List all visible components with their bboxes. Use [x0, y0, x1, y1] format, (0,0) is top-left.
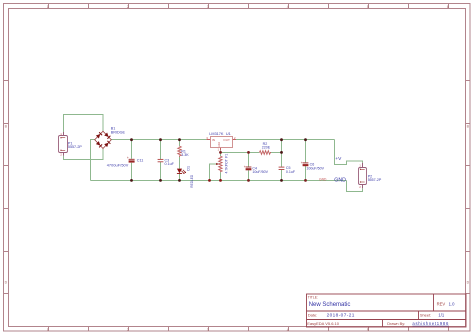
- svg-text:C11: C11: [137, 159, 144, 163]
- wire C4 top: [248, 153, 250, 167]
- node R2-C5: [280, 151, 283, 154]
- potentiometer P1 4.7K: [216, 154, 228, 174]
- diode on NW edge: [96, 132, 102, 138]
- svg-text:Sheet:: Sheet:: [420, 313, 431, 318]
- diode on NE edge: [104, 133, 110, 139]
- node gnd-LED: [178, 179, 181, 182]
- bridge rectifier B1: [95, 126, 126, 148]
- wire C3 top: [160, 140, 162, 160]
- svg-text:New Schematic: New Schematic: [309, 302, 351, 308]
- svg-text:GND: GND: [334, 178, 346, 184]
- wire C6 top: [305, 140, 307, 163]
- svg-text:P1: P1: [225, 154, 229, 158]
- wire pot bottom: [220, 172, 222, 180]
- svg-text:Drawn By:: Drawn By:: [387, 321, 405, 326]
- svg-text:0.1uF: 0.1uF: [165, 162, 175, 166]
- regulator U1 LM317: [206, 132, 236, 152]
- resistor R2: [259, 142, 271, 154]
- svg-text:0.1uF: 0.1uF: [286, 170, 296, 174]
- svg-text:2: 2: [127, 328, 129, 332]
- svg-text:2: 2: [127, 5, 129, 9]
- svg-text:100uF/50V: 100uF/50V: [306, 167, 324, 171]
- svg-text:IN: IN: [212, 138, 215, 142]
- wire bridge left to ground rail: [91, 140, 95, 181]
- svg-text:+: +: [244, 165, 246, 169]
- svg-text:4.7KPOT: 4.7KPOT: [225, 158, 229, 173]
- capacitor C4 (polarized): [244, 165, 269, 174]
- svg-text:10uF/50V: 10uF/50V: [252, 170, 268, 174]
- capacitor C3: [158, 158, 175, 166]
- wire C11 bottom: [131, 163, 133, 181]
- connector P1: [59, 132, 83, 157]
- svg-text:+: +: [301, 161, 303, 165]
- svg-text:3.3K: 3.3K: [181, 153, 189, 157]
- svg-text:+: +: [127, 156, 129, 160]
- svg-text:1: 1: [47, 5, 49, 9]
- wire C4 bottom: [248, 170, 250, 180]
- svg-text:ADJ: ADJ: [217, 141, 221, 147]
- wire pot wiper to ground: [210, 164, 217, 181]
- svg-text:1.0: 1.0: [449, 302, 455, 307]
- svg-text:LM317K: LM317K: [209, 132, 224, 136]
- svg-text:3: 3: [207, 5, 209, 9]
- wire ADJ node to R2 left: [221, 152, 260, 154]
- svg-text:3: 3: [207, 328, 209, 332]
- svg-text:EasyEDA V5.6.10: EasyEDA V5.6.10: [307, 321, 340, 326]
- svg-text:220E: 220E: [262, 146, 271, 150]
- capacitor C11 (polarized): [107, 156, 144, 168]
- wire OUT node vertical: [281, 140, 283, 167]
- wire +V stub: [335, 140, 363, 165]
- wire P1 pin1 to bridge top: [64, 115, 104, 133]
- wire input rail: [111, 139, 206, 141]
- wire C5 bottom: [281, 170, 283, 181]
- wire ground rail to P2 pin2: [347, 181, 363, 192]
- svg-text:5557-2P: 5557-2P: [68, 145, 82, 149]
- svg-text:+V: +V: [335, 156, 342, 162]
- wire output rail: [236, 139, 335, 141]
- node gnd-pot: [219, 179, 222, 182]
- junction dots: [130, 138, 307, 182]
- node rail-C11: [130, 138, 133, 141]
- wire ADJ to pot top: [220, 150, 222, 156]
- svg-text:C6: C6: [310, 162, 315, 166]
- svg-text:4700uF/50V: 4700uF/50V: [107, 163, 129, 167]
- node ADJ: [219, 151, 222, 154]
- wire R2 right to OUT node: [271, 152, 282, 154]
- wire R1 to LED: [179, 157, 181, 169]
- node outrail-C6: [304, 138, 307, 141]
- node outrail-R2C5: [280, 138, 283, 141]
- wire C3 bottom: [160, 162, 162, 181]
- capacitor C6 (polarized): [301, 161, 325, 171]
- svg-text:D1: D1: [187, 166, 191, 171]
- connector P2: [359, 163, 382, 189]
- svg-text:U1: U1: [226, 132, 231, 136]
- node gnd-wiper: [208, 179, 211, 182]
- svg-text:5557-2P: 5557-2P: [368, 178, 382, 182]
- svg-text:REDLED: REDLED: [190, 174, 194, 188]
- resistor R1: [178, 146, 189, 157]
- ground rail: [91, 180, 347, 182]
- node R2-C4: [247, 151, 250, 154]
- wire C6 bottom: [305, 166, 307, 180]
- svg-text:TITLE:: TITLE:: [308, 296, 318, 300]
- svg-text:1: 1: [47, 328, 49, 332]
- svg-text:6: 6: [447, 5, 449, 9]
- svg-text:5: 5: [367, 328, 369, 332]
- svg-text:1/1: 1/1: [438, 313, 444, 318]
- svg-text:4: 4: [287, 328, 289, 332]
- svg-text:5: 5: [367, 5, 369, 9]
- node gnd-C6: [304, 179, 307, 182]
- wire LED to ground: [179, 174, 181, 181]
- svg-text:BRIDGE: BRIDGE: [111, 130, 126, 134]
- node gnd-C5: [280, 179, 283, 182]
- svg-text:REV: REV: [437, 302, 446, 307]
- svg-text:OUT: OUT: [223, 138, 230, 142]
- svg-text:2018-07-21: 2018-07-21: [327, 313, 355, 318]
- svg-text:4: 4: [287, 5, 289, 9]
- node gnd-C11: [130, 179, 133, 182]
- node gnd-C4: [247, 179, 250, 182]
- node rail-R1: [178, 138, 181, 141]
- diode on SE edge: [104, 141, 110, 147]
- wire R1 top: [179, 140, 181, 147]
- svg-text:GND: GND: [319, 178, 327, 182]
- svg-text:Date:: Date:: [308, 313, 318, 318]
- svg-text:ashishnet1986: ashishnet1986: [412, 321, 449, 326]
- capacitor C5: [279, 166, 296, 174]
- wire C11 top: [131, 140, 133, 159]
- node rail-C3: [159, 138, 162, 141]
- node gnd-C3: [159, 179, 162, 182]
- LED D1: [177, 166, 194, 188]
- wire bridge bottom to P1 pin2: [64, 149, 104, 160]
- diode on SW edge: [96, 141, 102, 147]
